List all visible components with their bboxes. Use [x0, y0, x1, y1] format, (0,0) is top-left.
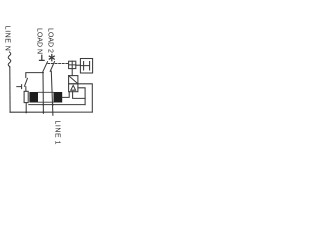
current transformer core edges [38, 92, 54, 102]
wire LINE N vertical [9, 67, 11, 112]
wire conductor L pole [51, 71, 53, 115]
footnote asterisk under LOAD 2 [49, 55, 54, 61]
wire amplifier output loop [78, 88, 85, 105]
svg-text:LOAD 2: LOAD 2 [47, 28, 54, 53]
test pushbutton actuator [17, 85, 22, 89]
wire resistor to rail [25, 103, 27, 113]
trip coil box [80, 59, 92, 74]
svg-text:LOAD N: LOAD N [36, 28, 43, 54]
current transformer core left block [29, 92, 38, 103]
link mechanism to relay [71, 69, 73, 76]
wire neutral bottom rail [10, 111, 92, 113]
trip mechanism box with cross [69, 61, 76, 68]
junction dots [25, 72, 53, 113]
mechanical linkage dashed [48, 63, 69, 65]
current transformer core right block [54, 92, 63, 103]
wire relay supply loop [78, 84, 92, 112]
svg-text:LINE N: LINE N [4, 26, 11, 52]
amplifier box triangle [69, 84, 78, 92]
wire CT secondary to amplifier [62, 92, 69, 98]
link mechanism to coil [76, 64, 81, 66]
relay box with diagonal [69, 76, 78, 84]
switch main contact pole N [43, 62, 48, 72]
wire test-branch tap [26, 73, 43, 78]
wire supply squiggle (flexible incoming lead) [8, 52, 11, 67]
footnote dagger under LOAD N [40, 55, 45, 60]
switch test button contact blade [25, 78, 28, 86]
wire conductor N pole [42, 73, 44, 114]
resistor R test [25, 87, 27, 92]
wire secondary return rail [29, 104, 85, 106]
wire amplifier bottom loop [73, 92, 86, 99]
svg-text:LINE 1: LINE 1 [53, 120, 60, 145]
switch main contact pole L [50, 62, 54, 72]
